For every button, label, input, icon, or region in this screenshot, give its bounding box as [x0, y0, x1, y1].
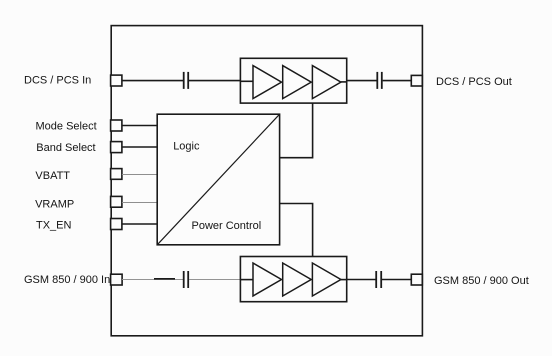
- svg-text:VRAMP: VRAMP: [35, 199, 74, 211]
- DCS/PCS input pin: [111, 75, 122, 86]
- svg-text:Logic: Logic: [173, 140, 200, 152]
- capacitor C2: [377, 72, 382, 89]
- wire: [189, 80, 240, 82]
- capacitor C4: [376, 271, 381, 288]
- Band Select pin: [111, 142, 122, 153]
- GSM PA box: [240, 257, 346, 302]
- amp stage A2: [283, 66, 312, 99]
- amp stage A4: [253, 263, 282, 296]
- wire: [347, 279, 376, 281]
- wire: [122, 223, 157, 225]
- svg-text:GSM 850 / 900 In: GSM 850 / 900 In: [24, 274, 110, 286]
- wire: [154, 278, 175, 280]
- DCS/PCS output pin: [411, 75, 422, 86]
- amp stage A5: [283, 263, 312, 296]
- GSM output pin: [411, 274, 422, 285]
- wire: [122, 80, 183, 82]
- wire: [189, 279, 240, 281]
- TX_EN pin: [111, 219, 122, 230]
- wire: [347, 80, 377, 82]
- DCS/PCS PA box: [240, 58, 346, 103]
- wire: [280, 204, 313, 257]
- wire: [382, 279, 411, 281]
- wire: [122, 279, 183, 281]
- svg-text:GSM 850 / 900 Out: GSM 850 / 900 Out: [434, 275, 529, 287]
- svg-text:DCS / PCS Out: DCS / PCS Out: [436, 76, 512, 88]
- wire: [341, 279, 347, 281]
- Mode Select pin: [111, 120, 122, 131]
- diagonal divider line: [157, 114, 279, 245]
- outer package boundary: [111, 26, 422, 336]
- GSM input pin: [111, 274, 123, 285]
- amp stage A1: [253, 66, 282, 99]
- capacitor C3: [184, 271, 189, 288]
- wire: [122, 125, 157, 127]
- wire: [122, 202, 157, 204]
- wire: [240, 80, 253, 82]
- amp stage A6: [312, 263, 341, 296]
- capacitor C1: [184, 72, 189, 89]
- amp stage A3: [312, 66, 341, 99]
- VBATT pin: [111, 169, 122, 180]
- wire: [383, 80, 412, 82]
- svg-text:Mode Select: Mode Select: [36, 120, 97, 132]
- svg-text:VBATT: VBATT: [35, 170, 70, 182]
- logic / power control block U2: [157, 114, 279, 245]
- svg-text:Power Control: Power Control: [192, 220, 262, 232]
- wire: [122, 174, 157, 176]
- wire: [341, 81, 347, 83]
- wire: [240, 279, 253, 281]
- svg-text:Band Select: Band Select: [36, 142, 95, 154]
- wire: [280, 103, 313, 158]
- wire: [122, 146, 157, 148]
- VRAMP pin: [111, 196, 122, 207]
- svg-text:DCS / PCS In: DCS / PCS In: [24, 75, 91, 87]
- svg-text:TX_EN: TX_EN: [36, 220, 72, 232]
